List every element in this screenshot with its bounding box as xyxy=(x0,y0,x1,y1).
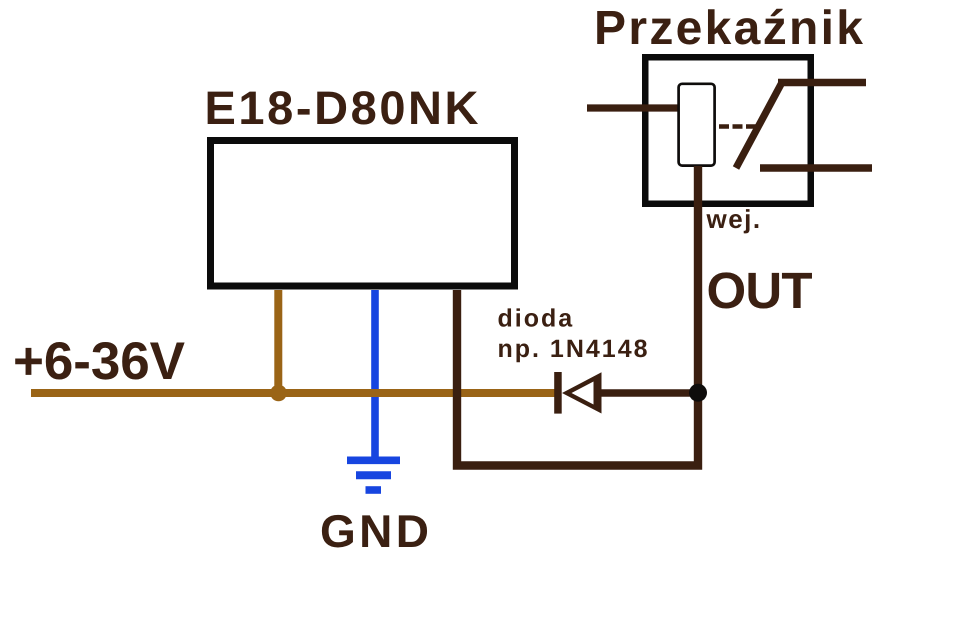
svg-text:np. 1N4148: np. 1N4148 xyxy=(498,335,650,363)
node supply junction (brown dot) xyxy=(270,385,287,402)
ground bar 1 xyxy=(347,456,400,464)
wire +6-36V supply rail (horizontal) xyxy=(31,389,555,397)
relay switch arm (diagonal) xyxy=(736,81,783,169)
wire relay NO contact top right xyxy=(778,79,866,87)
svg-text:OUT: OUT xyxy=(707,262,813,319)
wire sensor GND lead (vertical blue) xyxy=(371,290,379,457)
wire sensor output loop: down from sensor, along bottom, up to relay coil xyxy=(457,166,698,466)
wire diode anode to OUT node xyxy=(598,389,694,397)
node OUT junction (black dot) xyxy=(689,384,707,402)
svg-text:+6-36V: +6-36V xyxy=(13,332,185,391)
dashed actuation link xyxy=(719,124,756,129)
svg-text:E18-D80NK: E18-D80NK xyxy=(205,81,479,134)
wire sensor Vcc lead (vertical brown) xyxy=(274,290,282,393)
relay box K1 xyxy=(645,57,811,204)
ground bar 3 xyxy=(366,486,382,494)
wire relay coil left lead xyxy=(587,104,681,111)
svg-text:GND: GND xyxy=(320,505,429,557)
svg-text:dioda: dioda xyxy=(498,305,575,333)
diode D1 triangle (outer) xyxy=(562,372,602,413)
svg-text:Przekaźnik: Przekaźnik xyxy=(594,2,863,55)
sensor box E18-D80NK xyxy=(211,141,515,287)
wire relay NC contact lower right xyxy=(760,164,872,172)
svg-text:wej.: wej. xyxy=(706,204,762,234)
ground bar 2 xyxy=(356,471,391,479)
relay coil K1 body xyxy=(679,84,715,166)
diode D1 cathode bar xyxy=(554,372,562,414)
diode D1 triangle (inner white) xyxy=(572,382,594,405)
